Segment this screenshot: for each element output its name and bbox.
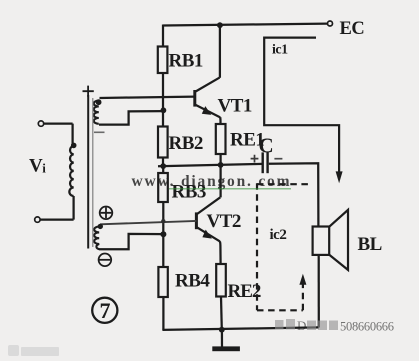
svg-text:EC: EC: [340, 19, 365, 39]
svg-text:VT1: VT1: [218, 96, 252, 117]
svg-text:BL: BL: [358, 234, 382, 255]
svg-text:ic1: ic1: [272, 43, 288, 58]
svg-text:Vi: Vi: [29, 156, 46, 177]
svg-text:D: D: [297, 318, 306, 333]
svg-text:www. diangon. com: www. diangon. com: [132, 173, 290, 190]
svg-text:RB4: RB4: [175, 271, 210, 292]
svg-text:VT2: VT2: [207, 211, 241, 232]
svg-text:C: C: [259, 134, 274, 158]
svg-text:RE2: RE2: [228, 281, 261, 302]
svg-text:ic2: ic2: [270, 227, 287, 243]
svg-text:RB2: RB2: [169, 133, 203, 154]
svg-text:7: 7: [100, 298, 111, 323]
svg-text:508660666: 508660666: [340, 320, 394, 334]
svg-text:RB1: RB1: [169, 51, 203, 72]
